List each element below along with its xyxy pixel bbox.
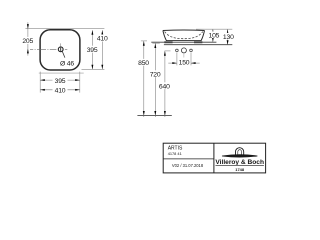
svg-text:205: 205 — [22, 38, 33, 45]
svg-text:V02 / 31.07.2018: V02 / 31.07.2018 — [172, 163, 204, 168]
dimension 720 — [152, 42, 159, 44]
svg-text:150: 150 — [179, 59, 190, 66]
dimension 395 (right of plan) — [91, 30, 93, 69]
basin left wall — [163, 31, 167, 41]
floor line — [137, 115, 171, 117]
dimension 850 — [141, 40, 147, 42]
svg-text:Ø 46: Ø 46 — [60, 60, 74, 67]
mounting pad right — [194, 41, 202, 43]
title block frame — [163, 143, 265, 173]
vertical divider — [213, 143, 215, 173]
basin rim top — [163, 29, 205, 31]
dimension 410 (right of plan) — [101, 30, 103, 69]
svg-text:720: 720 — [150, 71, 161, 78]
dimension 205 (left) — [27, 22, 29, 55]
svg-text:850: 850 — [138, 60, 149, 67]
drain outlet — [58, 47, 63, 52]
svg-text:1748: 1748 — [235, 167, 245, 172]
underline — [216, 164, 264, 166]
svg-text:395: 395 — [87, 47, 98, 54]
top extension line across plan view — [25, 28, 104, 30]
dimension 150 — [168, 62, 177, 64]
bottom extension line right of plan — [82, 68, 105, 70]
Villeroy & Boch logo icon — [222, 148, 257, 157]
top extension line to the right of rim — [196, 28, 232, 30]
fixing hole right — [190, 49, 193, 52]
svg-text:395: 395 — [55, 78, 66, 85]
dimension 410 (bottom of plan) — [40, 89, 80, 91]
dimension 105 — [212, 29, 214, 42]
drain hole — [181, 48, 186, 53]
svg-text:130: 130 — [223, 34, 234, 41]
basin outer square (rounded) — [40, 30, 80, 70]
dimension 395 (bottom of plan) — [40, 79, 80, 81]
svg-text:410: 410 — [55, 88, 66, 95]
dimension 640 — [165, 50, 171, 52]
svg-text:410: 410 — [97, 36, 108, 43]
inner bowl (hidden line) — [165, 32, 203, 39]
fixing hole left — [176, 49, 179, 52]
svg-text:640: 640 — [159, 83, 170, 90]
svg-text:105: 105 — [209, 32, 220, 39]
basin right wall — [201, 31, 204, 41]
horizontal centre line (dash-dot) — [30, 48, 67, 50]
countertop bottom line — [164, 44, 232, 46]
dimension 130 — [227, 29, 229, 44]
thin line below square — [39, 72, 84, 74]
vertical centre line above drain — [60, 43, 62, 46]
horizontal divider — [163, 158, 214, 160]
leader line to diameter label — [62, 51, 65, 57]
bottom dimension extension lines — [39, 72, 41, 93]
mounting pad left — [164, 41, 172, 43]
countertop top line — [151, 41, 216, 43]
svg-text:4178 41: 4178 41 — [168, 151, 182, 156]
dimension 150 extension lines — [176, 52, 178, 65]
basin bottom — [166, 40, 202, 42]
